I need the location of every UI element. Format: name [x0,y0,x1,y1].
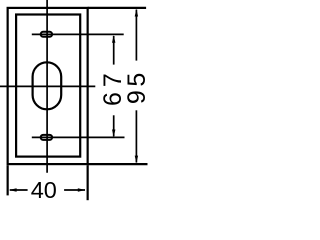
dim-95 bottom extension line [88,163,148,165]
dim-95 line top segment [135,10,137,61]
dim-67 line top segment [113,36,115,65]
dim-40 left extension line [7,165,9,195]
dim-67 line bottom segment [113,115,115,136]
arrowhead dim-67 down [112,130,115,138]
outer plate rectangle [8,8,88,164]
horizontal centerline [0,85,95,87]
dim-40 line left segment [10,189,28,191]
arrowhead dim-40 left [9,188,17,191]
svg-text:40: 40 [31,177,57,203]
arrowhead dim-67 up [112,35,115,43]
bottom slot [41,135,53,140]
dim-40 right extension line [87,165,89,200]
vertical centerline [46,0,48,173]
dim-40 line right segment [64,189,85,191]
bottom slot centerline / dim-67 bottom extension [32,136,125,138]
top slot centerline / dim-67 top extension [32,33,124,35]
dim-95 line bottom segment [135,110,137,162]
inner plate rectangle [16,15,80,157]
arrowhead dim-40 right [78,188,86,191]
dim-95 top extension line [88,7,146,9]
center oval [33,62,62,109]
arrowhead dim-95 up [135,9,138,17]
svg-text:9: 9 [123,90,151,104]
arrowhead dim-95 down [135,156,138,164]
top slot [41,32,53,37]
svg-text:5: 5 [123,73,151,87]
